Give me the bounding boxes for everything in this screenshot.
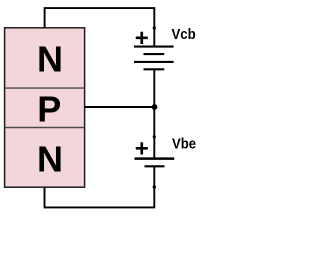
battery V2 plate: long (+) <box>135 157 175 160</box>
wire Vcb - terminal down to node B <box>153 69 155 107</box>
battery V2 plate: short (-) <box>145 165 165 167</box>
battery V1 plate: bottom short (-) <box>144 68 165 70</box>
node B junction dot <box>152 104 158 110</box>
transistor Q1 body outline (NPN bar) <box>5 28 85 187</box>
wire node B down to Vbe + terminal <box>153 107 155 158</box>
wire endpoint dot (collector wire / battery lead joint) <box>153 26 156 29</box>
wire collector to Vcb + terminal <box>45 8 155 46</box>
battery V1 plate: top long (+) <box>134 46 174 48</box>
battery V1 plate: upper short (-) <box>144 53 165 55</box>
collector-base region divider <box>5 87 85 89</box>
wire endpoint dot (Vbe lead / bottom wire joint) <box>153 185 156 188</box>
battery V1 plate: lower long (+) <box>134 61 174 63</box>
wire endpoint dot (node wire / Vbe lead joint) <box>153 135 156 138</box>
svg-text:N: N <box>37 39 63 80</box>
svg-text:N: N <box>37 139 63 180</box>
svg-text:+: + <box>135 25 149 52</box>
svg-text:P: P <box>37 89 61 130</box>
svg-text:Vbe: Vbe <box>172 135 196 152</box>
wire base to node B <box>85 106 155 108</box>
wire Vbe - terminal to emitter <box>45 166 155 207</box>
svg-text:Vcb: Vcb <box>172 26 196 43</box>
base-emitter region divider <box>5 127 85 129</box>
